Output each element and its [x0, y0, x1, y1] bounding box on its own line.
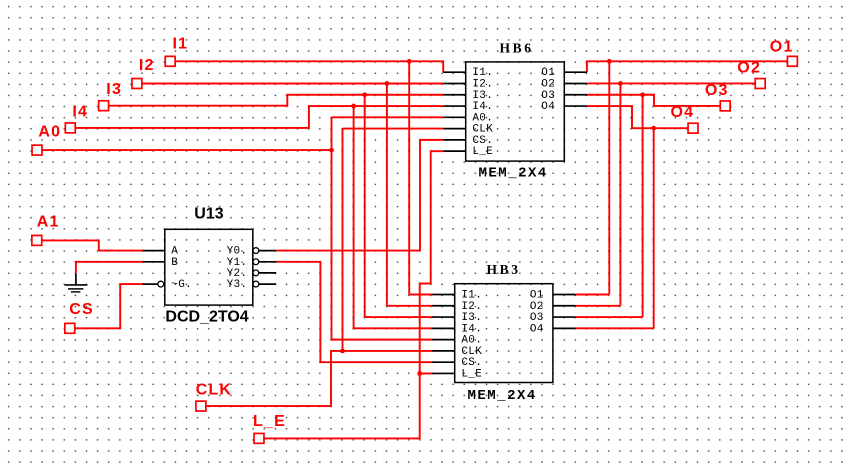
- svg-text:HB3: HB3: [487, 262, 521, 277]
- svg-text:A: A: [171, 246, 178, 258]
- svg-text:O1: O1: [770, 39, 794, 56]
- svg-text:A0.: A0.: [461, 335, 482, 347]
- svg-text:I3.: I3.: [472, 90, 493, 102]
- svg-text:CLK: CLK: [472, 124, 493, 136]
- svg-text:HB6: HB6: [500, 41, 534, 56]
- svg-text:CS.: CS.: [472, 135, 493, 147]
- svg-text:L_E: L_E: [461, 368, 482, 380]
- svg-text:A0.: A0.: [472, 112, 493, 124]
- svg-text:B: B: [171, 257, 178, 269]
- svg-text:O3: O3: [530, 312, 544, 324]
- svg-text:CS.: CS.: [461, 357, 482, 369]
- svg-text:O4: O4: [530, 323, 544, 335]
- svg-text:O4: O4: [541, 101, 555, 113]
- svg-text:MEM_2X4: MEM_2X4: [468, 388, 537, 404]
- svg-text:O4: O4: [671, 104, 695, 121]
- svg-text:I4: I4: [72, 104, 88, 121]
- svg-text:~G.: ~G.: [171, 279, 192, 291]
- svg-text:Y3.: Y3.: [227, 279, 248, 291]
- svg-text:I2.: I2.: [472, 78, 493, 90]
- svg-text:I3: I3: [106, 81, 122, 98]
- svg-text:CLK: CLK: [461, 346, 482, 358]
- svg-text:I1.: I1.: [461, 290, 482, 302]
- svg-text:I2: I2: [139, 57, 155, 74]
- svg-text:O3: O3: [541, 90, 555, 102]
- svg-text:O2: O2: [541, 78, 555, 90]
- svg-text:A1: A1: [37, 214, 60, 231]
- svg-text:MEM_2X4: MEM_2X4: [479, 165, 548, 181]
- svg-text:A0: A0: [38, 123, 61, 140]
- svg-text:I4.: I4.: [472, 101, 493, 113]
- svg-text:O2: O2: [737, 60, 761, 77]
- svg-text:O3: O3: [705, 82, 729, 99]
- svg-text:DCD_2TO4: DCD_2TO4: [165, 309, 248, 326]
- svg-text:CLK: CLK: [196, 381, 232, 398]
- svg-text:O1: O1: [530, 290, 544, 302]
- svg-text:I3.: I3.: [461, 312, 482, 324]
- svg-text:Y2.: Y2.: [227, 268, 248, 280]
- svg-text:I2.: I2.: [461, 301, 482, 313]
- svg-text:L_E: L_E: [472, 146, 493, 158]
- svg-text:CS: CS: [69, 301, 94, 318]
- svg-text:I1.: I1.: [472, 67, 493, 79]
- svg-text:I4.: I4.: [461, 323, 482, 335]
- svg-text:L_E: L_E: [253, 413, 286, 430]
- svg-text:I1: I1: [173, 36, 189, 53]
- svg-text:U13: U13: [194, 206, 223, 223]
- svg-text:O2: O2: [530, 301, 544, 313]
- svg-text:O1: O1: [541, 67, 555, 79]
- svg-text:Y0.: Y0.: [227, 246, 248, 258]
